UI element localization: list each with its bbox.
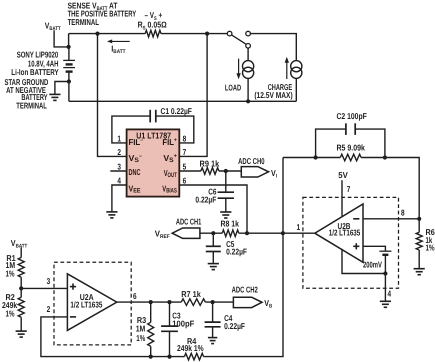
resistor R2 249k bbox=[18, 297, 24, 317]
label C4 ref bbox=[224, 313, 233, 323]
label VREF bbox=[155, 228, 171, 240]
label battery line1 bbox=[17, 49, 59, 59]
svg-text:1: 1 bbox=[117, 134, 121, 144]
label SENSE note line2 bbox=[68, 9, 137, 19]
svg-text:LOAD: LOAD bbox=[225, 83, 241, 93]
wire battery negative down bbox=[68, 82, 70, 102]
wire C5 top lead bbox=[212, 233, 214, 246]
svg-text:0.22µF: 0.22µF bbox=[226, 247, 247, 257]
label C2 value bbox=[337, 111, 367, 121]
label R2 tol bbox=[6, 309, 15, 319]
ground star ground symbol bbox=[49, 94, 60, 100]
label R3 ref bbox=[137, 315, 147, 325]
capacitor C2 100pF bbox=[346, 123, 355, 135]
svg-text:R5 9.09k: R5 9.09k bbox=[337, 143, 366, 153]
label C5 value bbox=[226, 247, 247, 257]
label U2A pin 2 bbox=[47, 304, 51, 314]
battery 200mV reference bbox=[379, 251, 391, 255]
junction load return node bbox=[246, 99, 250, 103]
wire pin4 to ground bbox=[384, 274, 386, 302]
label LOAD bbox=[225, 83, 241, 93]
svg-text:1%: 1% bbox=[426, 243, 435, 253]
resistor R4 249k bbox=[184, 353, 203, 360]
capacitor C5 0.22uF bbox=[206, 246, 221, 251]
label U1 pin 8 bbox=[183, 134, 187, 144]
wire R1 to node bbox=[20, 277, 22, 288]
label star ground line1 bbox=[5, 77, 49, 87]
label U1 pin 7 bbox=[183, 147, 187, 157]
label U2B plus input bbox=[353, 243, 359, 249]
op-amp U2A boundary box bbox=[54, 262, 131, 345]
wire U2A pin2 feedback bbox=[41, 317, 181, 357]
svg-text:C2 100pF: C2 100pF bbox=[337, 111, 367, 121]
label R5 value bbox=[337, 143, 366, 153]
junction battery top node bbox=[67, 45, 71, 49]
wire C6 bottom lead bbox=[225, 198, 227, 212]
label U1 pin 1 bbox=[117, 134, 121, 144]
label U2A name bbox=[80, 292, 94, 302]
label R7 value bbox=[181, 289, 201, 299]
svg-text:7: 7 bbox=[347, 184, 351, 194]
label ADC CH2 bbox=[232, 285, 258, 295]
label SENSE note line3 bbox=[68, 17, 99, 27]
current arrow charge up bbox=[285, 57, 289, 79]
svg-text:TERMINAL: TERMINAL bbox=[68, 17, 99, 27]
wire C2 left lead bbox=[316, 129, 346, 157]
svg-text:RS 0.05Ω: RS 0.05Ω bbox=[138, 20, 167, 32]
svg-text:100pF: 100pF bbox=[172, 318, 194, 328]
label R2 ref bbox=[6, 292, 16, 302]
wire main positive rail to RS bbox=[69, 33, 146, 35]
junction R3 bottom node bbox=[149, 355, 153, 359]
wire VBIAS pin6 to VREF node bbox=[179, 185, 247, 233]
svg-text:2: 2 bbox=[117, 147, 121, 157]
label U2A pin 6 bbox=[133, 291, 137, 301]
junction C4 node bbox=[211, 300, 215, 304]
svg-text:0.22µF: 0.22µF bbox=[195, 194, 216, 204]
label VI output bbox=[271, 168, 277, 180]
label R6 ref bbox=[426, 227, 435, 237]
label star ground line4 bbox=[16, 101, 47, 111]
label 12.5V MAX bbox=[254, 90, 292, 100]
capacitor C3 100pF bbox=[161, 326, 178, 331]
capacitor C1 0.22uF bbox=[150, 110, 156, 123]
ground U1 VEE ground bbox=[106, 212, 117, 218]
node 5V supply label bbox=[338, 170, 348, 180]
flag ADC CH0 bbox=[241, 167, 268, 177]
svg-text:4: 4 bbox=[388, 288, 392, 298]
wire VOUT pin5 to R9 bbox=[179, 170, 201, 172]
label U2B pin 1 bbox=[297, 222, 301, 232]
resistor R9 1k bbox=[201, 168, 219, 175]
resistor R8 1k bbox=[222, 230, 239, 237]
label VB output bbox=[264, 298, 272, 310]
resistor RS 0.05ohm bbox=[145, 30, 161, 37]
current source LOAD bbox=[243, 61, 254, 79]
battery B1 plates bbox=[63, 60, 75, 71]
svg-text:DNC: DNC bbox=[129, 167, 141, 177]
resistor R5 9.09k bbox=[340, 154, 361, 161]
label R8 value bbox=[221, 218, 240, 228]
label R4 value bbox=[177, 343, 204, 353]
label C4 value bbox=[224, 321, 245, 331]
wire U2B vminus rail bbox=[342, 249, 385, 274]
op-amp U2B 1/2 LT1635 bbox=[315, 204, 363, 262]
svg-text:0.22µF: 0.22µF bbox=[224, 321, 245, 331]
wire battery-top to main rail bbox=[68, 34, 70, 47]
flag ADC CH1 bbox=[172, 228, 200, 238]
svg-text:R7 1k: R7 1k bbox=[181, 289, 201, 299]
wire R5 line right bbox=[361, 158, 419, 219]
label star ground line3 bbox=[21, 92, 47, 102]
svg-text:TERMINAL: TERMINAL bbox=[16, 101, 47, 111]
wire C1 to pin8 bbox=[156, 116, 194, 143]
wire RS right to switch bbox=[161, 33, 227, 35]
wire R7 to ADC CH2 bbox=[205, 301, 233, 303]
label U1 pin 4 bbox=[117, 175, 121, 185]
current arrow load down bbox=[236, 59, 240, 80]
junction C3 top node bbox=[167, 300, 171, 304]
label R6 value bbox=[426, 235, 433, 245]
capacitor C6 0.22uF bbox=[218, 192, 234, 198]
svg-text:1/2 LT1635: 1/2 LT1635 bbox=[329, 228, 361, 238]
op-amp U1 LT1787 body bbox=[127, 129, 180, 196]
wire VS+ sense line bbox=[179, 34, 207, 157]
label C1 value bbox=[161, 106, 192, 116]
wire pin1 to C1 bbox=[112, 116, 150, 143]
label U1 pin VS+ name bbox=[163, 153, 177, 164]
ground C4 ground bbox=[208, 338, 217, 344]
svg-text:ADC CH0: ADC CH0 bbox=[238, 156, 265, 166]
svg-text:5: 5 bbox=[183, 161, 187, 171]
svg-text:C1 0.22µF: C1 0.22µF bbox=[161, 106, 192, 116]
label U1 pin DNC name bbox=[129, 167, 141, 177]
label R6 tol bbox=[426, 243, 435, 253]
wire battery bottom lead bbox=[68, 72, 70, 82]
wire C6 top lead bbox=[225, 171, 227, 192]
svg-text:3: 3 bbox=[117, 161, 121, 171]
label U1 title bbox=[136, 130, 171, 140]
label R9 value bbox=[200, 159, 220, 169]
wire U2B minus to feedback bbox=[363, 218, 419, 220]
wire load source to return rail bbox=[247, 78, 249, 101]
label U2A pin 3 bbox=[47, 276, 51, 286]
svg-text:R8 1k: R8 1k bbox=[221, 218, 240, 228]
label U2B pin 8 bbox=[401, 207, 405, 217]
wire R5 line left bbox=[283, 157, 340, 159]
label U1 pin VBIAS name bbox=[162, 184, 177, 195]
label R2 value bbox=[2, 300, 17, 310]
wire load return rail bbox=[69, 100, 296, 102]
wire R6 top lead bbox=[418, 219, 420, 233]
label U1 pin 5 bbox=[183, 161, 187, 171]
label R4 ref bbox=[187, 336, 197, 346]
svg-text:8: 8 bbox=[401, 207, 405, 217]
wire feedback left drop bbox=[282, 158, 284, 234]
label U2A part bbox=[70, 300, 102, 310]
svg-text:1: 1 bbox=[297, 222, 301, 232]
wire 5V to U2B pin7 bbox=[341, 180, 343, 216]
svg-text:ADC CH2: ADC CH2 bbox=[232, 285, 258, 295]
label R1 ref bbox=[6, 253, 16, 263]
svg-text:3: 3 bbox=[47, 276, 51, 286]
label R3 value bbox=[136, 324, 146, 334]
junction VS+ sense node bbox=[205, 31, 209, 35]
wire switch to charge branch bbox=[251, 34, 297, 61]
resistor R7 1k bbox=[181, 299, 205, 306]
svg-text:5V: 5V bbox=[338, 170, 348, 180]
svg-text:1%: 1% bbox=[6, 269, 15, 279]
flag ADC CH2 bbox=[233, 297, 262, 307]
junction R3 top node bbox=[149, 300, 153, 304]
label U1 pin 3 bbox=[117, 161, 121, 171]
label U2B name bbox=[338, 221, 351, 231]
svg-text:200mV: 200mV bbox=[363, 260, 382, 270]
junction VOUT filter node bbox=[224, 169, 228, 173]
label U2B part bbox=[329, 228, 361, 238]
wire battery top lead bbox=[68, 47, 70, 61]
resistor R6 1k bbox=[416, 232, 422, 250]
op-amp U2A 1/2 LT1635 bbox=[67, 274, 116, 331]
svg-text:R9 1k: R9 1k bbox=[200, 159, 220, 169]
wire C4 bottom lead bbox=[212, 327, 214, 338]
label U2B minus input bbox=[353, 218, 359, 220]
label U2A plus input bbox=[70, 284, 76, 290]
label R1 value bbox=[6, 260, 16, 270]
label -VS+ polarity bbox=[145, 10, 163, 22]
wire R3 bottom lead bbox=[150, 346, 152, 356]
label U1 pin 6 bbox=[183, 175, 187, 185]
wire battery negative to star ground bbox=[55, 82, 69, 95]
wire C3 top lead bbox=[169, 302, 171, 326]
ground R2 ground bbox=[16, 331, 27, 337]
label U1 pin FIL+ name bbox=[162, 137, 177, 147]
junction C2 right node bbox=[383, 155, 387, 159]
label CHARGE bbox=[268, 82, 293, 92]
wire C2 right lead bbox=[355, 129, 385, 157]
node VBATT divider label bbox=[11, 238, 28, 250]
wire R8 to VREF junction bbox=[239, 232, 283, 234]
ground U2B pin4 ground bbox=[380, 301, 391, 307]
wire VBATT to R1 bbox=[20, 247, 22, 257]
svg-text:8: 8 bbox=[183, 134, 187, 144]
junction reference ground node bbox=[383, 271, 387, 275]
label SENSE note line1 bbox=[68, 0, 118, 12]
svg-text:1/2 LT1635: 1/2 LT1635 bbox=[70, 300, 102, 310]
label C6 value bbox=[195, 194, 216, 204]
wire U2B plus to reference bbox=[363, 246, 385, 251]
wire ADC CH1 to R8 bbox=[200, 232, 222, 234]
label C3 value bbox=[172, 318, 194, 328]
svg-text:249k 1%: 249k 1% bbox=[177, 343, 204, 353]
svg-text:Li-Ion BATTERY: Li-Ion BATTERY bbox=[11, 67, 59, 77]
label C3 ref bbox=[172, 311, 181, 321]
node VBATT top terminal label bbox=[45, 21, 61, 33]
resistor R1 1M bbox=[18, 258, 24, 278]
wire U2A output bbox=[117, 301, 182, 303]
switch blade bbox=[232, 35, 247, 44]
junction pin8 node bbox=[417, 217, 421, 221]
junction C3 bottom node bbox=[167, 355, 171, 359]
svg-text:1%: 1% bbox=[6, 309, 15, 319]
label C5 ref bbox=[226, 239, 235, 249]
svg-text:2: 2 bbox=[47, 304, 51, 314]
svg-text:4: 4 bbox=[117, 175, 121, 185]
label IBATT bbox=[111, 43, 126, 55]
wire R3 top lead bbox=[150, 302, 152, 322]
wire VEE pin4 to ground bbox=[112, 185, 127, 212]
ground R6 ground bbox=[414, 269, 425, 275]
switch pole lower bbox=[246, 44, 251, 49]
switch contact left bbox=[227, 31, 232, 36]
label U1 pin VS- name bbox=[129, 153, 143, 164]
junction battery negative node bbox=[67, 79, 71, 83]
label ADC CH1 bbox=[176, 217, 202, 227]
ground C6 ground bbox=[220, 212, 231, 218]
junction VS- sense node bbox=[95, 31, 99, 35]
wire C3 bottom lead bbox=[169, 331, 171, 356]
wire R4 left lead bbox=[181, 356, 184, 358]
wire VBATT lead step bbox=[54, 30, 69, 47]
wire VREF junction to U2B output bbox=[283, 232, 315, 234]
label C6 ref bbox=[208, 186, 217, 196]
svg-text:(12.5V MAX): (12.5V MAX) bbox=[254, 90, 292, 100]
wire switch pole to load source bbox=[247, 48, 249, 60]
label battery line3 bbox=[11, 67, 59, 77]
label U1 pin VOUT name bbox=[164, 168, 177, 179]
junction feedback node pin1 bbox=[281, 231, 285, 235]
label U1 pin VEE name bbox=[129, 183, 142, 194]
wire R2 to ground bbox=[20, 317, 22, 331]
junction divider node bbox=[19, 286, 23, 290]
wire node to R2 bbox=[20, 288, 22, 297]
svg-text:ADC CH1: ADC CH1 bbox=[176, 217, 202, 227]
label R1 tol bbox=[6, 269, 15, 279]
wire VS- sense line bbox=[98, 34, 127, 157]
wire R6 bottom lead bbox=[418, 250, 420, 269]
label U2B pin 7 bbox=[347, 184, 351, 194]
svg-text:1%: 1% bbox=[136, 333, 145, 343]
svg-text:7: 7 bbox=[183, 147, 187, 157]
junction C5 node bbox=[211, 231, 215, 235]
label U2A minus input bbox=[70, 316, 76, 318]
label U2B pin 4 bbox=[388, 288, 392, 298]
current source CHARGE bbox=[291, 61, 302, 79]
label ADC CH0 bbox=[238, 156, 265, 166]
wire DNC stub pin3 bbox=[110, 170, 126, 172]
junction C2 left node bbox=[314, 155, 318, 159]
switch contact right bbox=[246, 31, 251, 36]
wire reference to ground rail bbox=[384, 255, 386, 274]
label U1 pin FIL- name bbox=[129, 137, 144, 147]
ground C5 ground bbox=[208, 264, 219, 270]
resistor R3 1M bbox=[148, 322, 154, 346]
label battery line2 bbox=[28, 58, 59, 68]
label 200mV bbox=[363, 260, 382, 270]
junction R8 VBIAS node bbox=[245, 231, 249, 235]
wire R4 to VREF riser bbox=[204, 233, 283, 356]
current arrow IBATT bbox=[107, 39, 130, 43]
wire C4 top lead bbox=[212, 302, 214, 322]
wire charge source to return rail bbox=[295, 78, 297, 101]
op-amp U2B boundary box bbox=[303, 197, 399, 288]
label R3 tol bbox=[136, 333, 145, 343]
wire divider to U2A pin3 bbox=[21, 287, 67, 289]
svg-text:6: 6 bbox=[183, 175, 187, 185]
capacitor C4 0.22uF bbox=[205, 322, 221, 327]
label star ground line2 bbox=[6, 85, 46, 95]
wire C5 bottom lead bbox=[212, 252, 214, 264]
svg-text:6: 6 bbox=[133, 291, 137, 301]
label RS value bbox=[138, 20, 167, 32]
label U1 pin 2 bbox=[117, 147, 121, 157]
wire R9 to ADC CH0 flag bbox=[219, 170, 241, 172]
